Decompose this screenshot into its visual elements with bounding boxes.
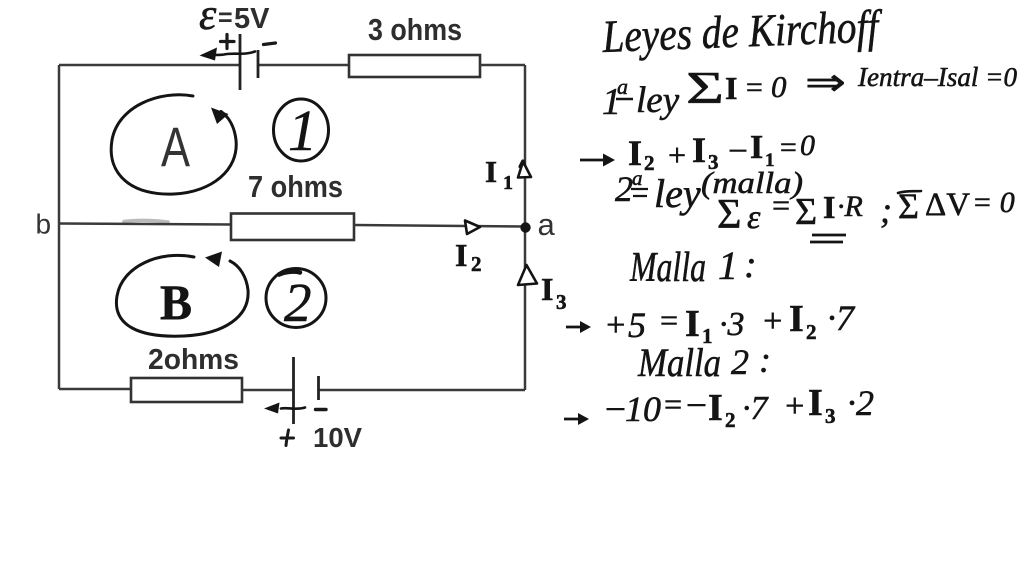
- svg-text:Malla: Malla: [629, 245, 706, 291]
- svg-text:–: –: [687, 384, 706, 421]
- svg-text:+: +: [783, 388, 806, 425]
- svg-text:2: 2: [806, 320, 817, 344]
- svg-text:=: =: [744, 71, 764, 104]
- wire bottom-left segment: [59, 388, 131, 391]
- node a junction dot: [520, 222, 530, 232]
- arrow to mesh-1 equation: [566, 326, 584, 329]
- svg-text:7 ohms: 7 ohms: [248, 169, 343, 204]
- svg-text:b: b: [36, 209, 52, 240]
- svg-text:I: I: [541, 271, 553, 307]
- svg-text:5V: 5V: [234, 3, 270, 35]
- svg-text:A: A: [161, 115, 190, 178]
- svg-text:I: I: [725, 70, 737, 106]
- svg-text:·2: ·2: [847, 383, 874, 423]
- svg-text:a: a: [617, 74, 628, 99]
- arrow to mesh-2 equation: [564, 418, 582, 421]
- svg-text:2ohms: 2ohms: [148, 344, 239, 376]
- svg-text:I: I: [808, 382, 823, 424]
- svg-text:1: 1: [503, 172, 513, 194]
- wire left vertical: [58, 65, 61, 389]
- wire top-right segment (battery to R1): [258, 64, 349, 67]
- svg-text::: :: [744, 244, 757, 286]
- current I2 arrowhead on middle wire: [465, 221, 480, 235]
- wire battery V2 to bottom-right corner: [319, 389, 526, 392]
- svg-text:B: B: [160, 274, 192, 330]
- svg-text:I: I: [692, 130, 706, 170]
- arrow to node equation: [580, 159, 608, 162]
- svg-text:·7: ·7: [827, 298, 856, 338]
- battery V2 (10V) long plate: [292, 357, 295, 424]
- battery V2 short plate: [317, 376, 320, 400]
- faint smudge on middle wire: [124, 220, 168, 222]
- svg-text:5: 5: [628, 305, 646, 345]
- mesh number 1 circle: [274, 99, 329, 161]
- svg-text:2: 2: [615, 169, 633, 209]
- svg-text:2: 2: [644, 151, 655, 175]
- V2 plus sign: [281, 430, 294, 446]
- svg-text:I: I: [789, 298, 804, 340]
- wire R1 to top-right corner: [480, 64, 525, 67]
- svg-text:=: =: [662, 386, 684, 422]
- svg-text:1: 1: [718, 243, 738, 288]
- svg-text:;: ;: [880, 190, 892, 230]
- svg-text:I: I: [685, 303, 700, 345]
- svg-text:–: –: [729, 129, 747, 165]
- svg-text:I: I: [708, 387, 723, 429]
- svg-text:2: 2: [731, 342, 749, 382]
- wire top-left segment: [59, 64, 240, 67]
- current I1 arrowhead on right wire: [518, 162, 531, 178]
- svg-text:·R: ·R: [837, 190, 863, 223]
- svg-text:I: I: [485, 154, 497, 189]
- wire right vertical: [524, 65, 527, 390]
- svg-text:Σ: Σ: [795, 191, 817, 233]
- resistor R1 (3 ohms): [349, 55, 480, 77]
- svg-text:=: =: [778, 131, 798, 164]
- svg-text:–: –: [606, 388, 625, 425]
- svg-text:Malla: Malla: [637, 340, 721, 385]
- svg-text:10: 10: [625, 389, 661, 429]
- svg-text:0: 0: [771, 69, 787, 104]
- mesh number 2 circle: [266, 269, 326, 328]
- battery V1 (5V) long plate: [239, 34, 242, 90]
- svg-text:1: 1: [288, 98, 317, 163]
- mesh B loop arrow: [116, 255, 248, 336]
- svg-text:Leyes de Kirchoff: Leyes de Kirchoff: [601, 0, 885, 62]
- svg-text:I: I: [750, 129, 763, 166]
- double underline: [810, 235, 846, 242]
- svg-text:2: 2: [471, 252, 482, 276]
- V1 plus sign: [221, 35, 235, 49]
- svg-text:=: =: [658, 302, 680, 338]
- svg-text:2: 2: [725, 408, 736, 432]
- svg-text:⇒: ⇒: [805, 62, 846, 104]
- svg-text:=: =: [770, 187, 792, 223]
- svg-text:Σ: Σ: [686, 62, 724, 113]
- svg-text:0: 0: [800, 129, 815, 162]
- svg-text:Ientra–Isal =0: Ientra–Isal =0: [857, 62, 1017, 92]
- svg-text:a: a: [538, 207, 556, 242]
- svg-text:10V: 10V: [313, 422, 363, 453]
- svg-text:+: +: [666, 137, 688, 173]
- svg-text:ε: ε: [747, 199, 761, 236]
- svg-text:3: 3: [556, 290, 567, 314]
- wire R3 to battery V2: [242, 389, 294, 392]
- svg-text:Σ: Σ: [717, 192, 741, 238]
- svg-text:·7: ·7: [742, 390, 770, 427]
- svg-text:3 ohms: 3 ohms: [368, 12, 462, 47]
- current I3 arrowhead on right wire: [518, 265, 537, 285]
- V2 current direction arrow: [281, 408, 305, 409]
- mesh A loop arrow: [111, 95, 236, 194]
- svg-text:= 0: = 0: [972, 186, 1015, 219]
- svg-text:+: +: [761, 303, 784, 340]
- svg-text:·3: ·3: [719, 306, 745, 343]
- wire middle-right segment (R2 to node a): [354, 225, 525, 227]
- battery V1 short plate: [257, 50, 260, 78]
- svg-text:3: 3: [825, 404, 836, 428]
- svg-text:I: I: [823, 189, 835, 225]
- svg-text:ley: ley: [654, 171, 701, 216]
- resistor R2 (7 ohms): [231, 214, 354, 241]
- svg-text::: :: [759, 340, 771, 380]
- svg-text:ley: ley: [636, 80, 680, 121]
- V1 minus sign: [264, 43, 276, 45]
- svg-text:ΔV: ΔV: [925, 187, 970, 223]
- svg-text:ε: ε: [199, 0, 217, 39]
- svg-text:I: I: [455, 237, 467, 273]
- svg-text:=: =: [218, 4, 233, 32]
- svg-text:2: 2: [284, 272, 312, 333]
- resistor R3 (2ohms): [131, 378, 242, 402]
- V2 minus sign: [316, 408, 327, 411]
- wire middle-left segment (b to R2): [59, 224, 231, 225]
- V1 current direction arrow: [212, 52, 255, 55]
- svg-text:+: +: [604, 307, 627, 344]
- svg-text:a: a: [632, 166, 643, 190]
- circle 2 overdrawn top arc: [279, 272, 300, 275]
